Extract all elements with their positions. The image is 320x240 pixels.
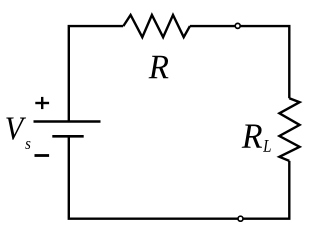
label Vs (V) (6, 117, 26, 139)
label Vs (subscript s) (25, 141, 30, 149)
wire from R to top terminal and top-right corner (190, 26, 289, 98)
label RL (R) (242, 125, 262, 148)
label R (149, 56, 169, 78)
label RL (subscript L) (263, 140, 271, 152)
node terminal bottom (open circle) (238, 216, 243, 221)
wire right-bottom (RL down and across bottom) (69, 137, 289, 218)
plus polarity mark (35, 97, 49, 109)
resistor R (123, 15, 190, 37)
battery Vs long plate (+) (34, 120, 101, 122)
node terminal top (open circle) (235, 23, 240, 28)
minus polarity mark (35, 154, 50, 157)
battery Vs short plate (-) (52, 135, 83, 138)
wire top-left (battery + terminal up and across to R) (69, 26, 123, 121)
resistor RL (279, 98, 299, 161)
